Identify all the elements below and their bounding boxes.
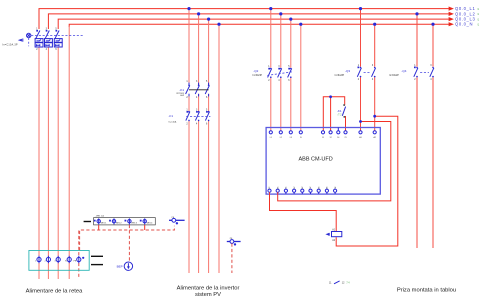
- svg-text:sistem PV: sistem PV: [195, 292, 221, 298]
- node U1 pin A2: [373, 131, 376, 139]
- svg-text:11: 11: [322, 137, 324, 139]
- node U1 bottom pin 18: [276, 187, 279, 194]
- ground BEP main earthing point: [117, 262, 133, 270]
- wire bus Q0.0_L3: [58, 19, 449, 29]
- wire Q4 pole1 feed to socket: [416, 14, 418, 248]
- svg-text:A1: A1: [359, 136, 361, 139]
- node junction (330.6,96.8): [329, 95, 332, 98]
- wire F1 mechanism dashed link: [186, 115, 210, 117]
- breaker Q4: [414, 65, 434, 81]
- wire U1 pin18 to A1 net: [278, 122, 391, 201]
- svg-text:In=6A/2P: In=6A/2P: [335, 74, 345, 77]
- svg-text:In=6A/2P: In=6A/2P: [389, 74, 399, 77]
- svg-text:16: 16: [268, 187, 270, 189]
- wire Q3 pole1 feed: [360, 9, 362, 131]
- node terminal WE1:4: [140, 218, 152, 224]
- wire PE dashed horizontal: [80, 226, 175, 251]
- label mains feed: [26, 288, 83, 294]
- node arrow Q0.0_L1: [449, 6, 480, 11]
- node junction (433,24.2): [431, 23, 434, 26]
- node arrow Q0.0_L2: [449, 11, 480, 16]
- breaker Q1: [35, 28, 62, 51]
- node terminal WE1:3: [125, 218, 137, 224]
- handle Q1 rotary operator: [18, 33, 31, 41]
- breaker Q2: [268, 66, 292, 82]
- node arrow Q0.0_N: [449, 22, 480, 27]
- wire inverter N: [218, 24, 220, 273]
- label inverter feed: [177, 285, 240, 298]
- node U1 bottom pin 35: [333, 187, 336, 194]
- wire WE1:1 drop: [98, 225, 100, 230]
- svg-text:In=C10A,: In=C10A,: [169, 121, 177, 124]
- wire U1 pin16 to relay K1 coil: [270, 192, 337, 231]
- node terminal X1:3: [54, 256, 60, 263]
- node U1 bottom pin 38: [325, 187, 328, 194]
- wire bus Q0.0_L2: [48, 14, 448, 29]
- svg-text:-K1: -K1: [337, 109, 342, 113]
- node U1 pin N: [299, 131, 302, 139]
- node junction (208.6,19.1): [207, 18, 210, 21]
- svg-text:BEP: BEP: [117, 264, 123, 268]
- node U1 pin L2: [279, 131, 282, 139]
- node terminal WE1:1: [94, 218, 106, 224]
- svg-text:18: 18: [276, 187, 278, 189]
- node U1 pin 21: [344, 131, 347, 139]
- svg-text:-Q3: -Q3: [345, 69, 350, 73]
- wire Q2 mechanism dashed link: [267, 72, 293, 76]
- node junction (417,13.9): [415, 12, 418, 15]
- svg-text:4kW: 4kW: [180, 95, 184, 97]
- wire bus Q0.0_L1: [39, 9, 449, 29]
- svg-text:Alimentare de la retea: Alimentare de la retea: [26, 288, 83, 294]
- svg-text:35: 35: [333, 187, 335, 189]
- wire CM-UFD phase x=290.8: [290, 19, 292, 131]
- svg-text:In=C10A,3P: In=C10A,3P: [2, 43, 18, 46]
- node terminal block dot: [82, 257, 84, 259]
- node terminal WE1:2: [109, 218, 121, 224]
- wire inverter phase x=198.6: [198, 14, 200, 273]
- svg-text:-WE1 1x4: -WE1 1x4: [96, 215, 104, 217]
- wire K1 mechanical link: [189, 89, 209, 91]
- node junction (270.8,8.6): [269, 7, 272, 10]
- svg-text:ABB CM-UFD: ABB CM-UFD: [299, 156, 333, 162]
- label Q2: [252, 69, 262, 77]
- terminal PE bar B: [227, 238, 241, 246]
- svg-text:L1: L1: [270, 137, 272, 139]
- switch K1 auxiliary contact: [337, 104, 346, 118]
- svg-text:1: 1: [35, 261, 36, 263]
- breaker Q3: [357, 65, 375, 81]
- label F1: [169, 114, 177, 124]
- node junction (374.7,116.2): [373, 115, 376, 118]
- wire CM-UFD N: [300, 24, 302, 131]
- node U1 bottom pin 25: [309, 187, 312, 194]
- node terminal X1:2: [45, 256, 51, 263]
- svg-text:Q0.0_N: Q0.0_N: [455, 22, 473, 27]
- label Q4: [389, 69, 406, 77]
- wire bridge pins 11-12: [323, 97, 345, 131]
- node junction (360.5,8.6): [359, 7, 362, 10]
- node junction (300.8,24.2): [299, 23, 302, 26]
- node junction (219,24.2): [217, 23, 220, 26]
- svg-text:A2: A2: [374, 136, 376, 139]
- node U1 pin 14: [337, 128, 340, 139]
- svg-text:L3: L3: [290, 137, 292, 139]
- node junction (280.8,13.9): [279, 12, 282, 15]
- svg-text:28: 28: [301, 187, 303, 189]
- wire L3 feeder: [57, 47, 59, 279]
- node U1 bottom pin 16: [268, 187, 271, 194]
- label socket: [397, 287, 456, 293]
- node junction (198.6,13.9): [197, 12, 200, 15]
- svg-text:38: 38: [325, 187, 327, 189]
- svg-text:-F1: -F1: [169, 114, 174, 118]
- wire PE dashed inverter: [231, 244, 233, 274]
- wire CM-UFD phase x=270.8: [270, 9, 272, 131]
- wire Q3 pole2 feed: [374, 24, 376, 131]
- svg-text:21: 21: [344, 137, 346, 139]
- svg-text:WE1:2: WE1:2: [116, 222, 122, 224]
- label K1: [176, 88, 184, 97]
- node junction (374.7,24.2): [373, 23, 376, 26]
- symbol continuation bars: [91, 256, 103, 264]
- wire PE dashed to terminal 5: [78, 231, 80, 280]
- wire Q4 pole2 feed to socket: [432, 24, 434, 248]
- node U1 pin 11: [321, 131, 324, 139]
- wire Q3 mechanism dashed link: [364, 71, 371, 73]
- node U1 bottom pin 36: [317, 187, 320, 194]
- contactor K1: [186, 81, 210, 99]
- svg-text:14: 14: [337, 137, 339, 139]
- wire bus Q0.0_N: [69, 24, 449, 27]
- wire Q4 mechanism dashed link: [420, 71, 429, 73]
- svg-text:-K1: -K1: [179, 88, 184, 92]
- terminal strip WE1: [84, 215, 156, 225]
- wire N feeder: [68, 26, 70, 279]
- wire Q1 mechanism dashed link: [29, 36, 84, 47]
- svg-text:WE1:3: WE1:3: [131, 222, 137, 224]
- label Q1 value: [2, 43, 18, 46]
- svg-text:3: 3: [54, 261, 55, 263]
- wire inverter phase x=189: [188, 9, 190, 273]
- svg-text:L2: L2: [280, 137, 282, 139]
- terminal block X1 mains: [29, 251, 89, 271]
- node U1 pin L3: [289, 131, 292, 139]
- wire relay K1 coil return to A2 net: [336, 116, 398, 246]
- wire inverter phase x=208.6: [208, 19, 210, 273]
- label K1 contact cross reference: [329, 281, 350, 285]
- node U1 pin 12: [329, 131, 332, 139]
- svg-text:2: 2: [45, 261, 46, 263]
- svg-text:WE1:1: WE1:1: [101, 222, 107, 224]
- wire L2 feeder: [47, 47, 49, 279]
- node U1 pin A1: [359, 131, 362, 139]
- relay K1 coil: [325, 229, 341, 242]
- node arrow Q0.0_L3: [449, 17, 480, 22]
- node terminal X1:1: [35, 256, 41, 263]
- node terminal X1:N: [65, 256, 71, 263]
- node junction (189,8.6): [187, 7, 190, 10]
- wire L1 feeder to Q1 and mains terminals: [38, 47, 40, 279]
- terminal PE bar A: [169, 217, 185, 225]
- node U1 pin L1: [269, 131, 272, 139]
- svg-text:Alimentare de la invertor: Alimentare de la invertor: [177, 285, 240, 291]
- svg-text:-Q2: -Q2: [253, 69, 258, 73]
- svg-text:WE1:4: WE1:4: [147, 222, 153, 224]
- wire CM-UFD phase x=280.8: [280, 14, 282, 131]
- node U1 bottom pin 28: [301, 187, 304, 194]
- svg-text:-Q4: -Q4: [401, 69, 406, 73]
- node junction (360.5,121.5): [359, 120, 362, 123]
- node terminal X1:PE: [74, 256, 81, 263]
- svg-text:25: 25: [309, 187, 311, 189]
- svg-text:Q0.0_L1: Q0.0_L1: [455, 6, 475, 11]
- node junction (290.8,19.1): [289, 18, 292, 21]
- node U1 bottom pin 26: [292, 187, 295, 194]
- wire WE1:4 drop: [144, 225, 146, 230]
- wire WE1:3 dashed to BEP: [128, 225, 130, 262]
- svg-text:36: 36: [317, 187, 319, 189]
- label Q3: [335, 69, 351, 77]
- svg-text:In=6A/3P: In=6A/3P: [252, 74, 262, 77]
- node U1 bottom pin 15: [284, 187, 287, 194]
- svg-text:15: 15: [284, 187, 286, 189]
- svg-text:26: 26: [292, 187, 294, 189]
- relay U1 ABB CM-UFD monitoring box: [266, 128, 380, 195]
- breaker F1: [186, 109, 210, 125]
- svg-text:12: 12: [330, 137, 332, 139]
- svg-text:Priza montata in tablou: Priza montata in tablou: [397, 287, 456, 293]
